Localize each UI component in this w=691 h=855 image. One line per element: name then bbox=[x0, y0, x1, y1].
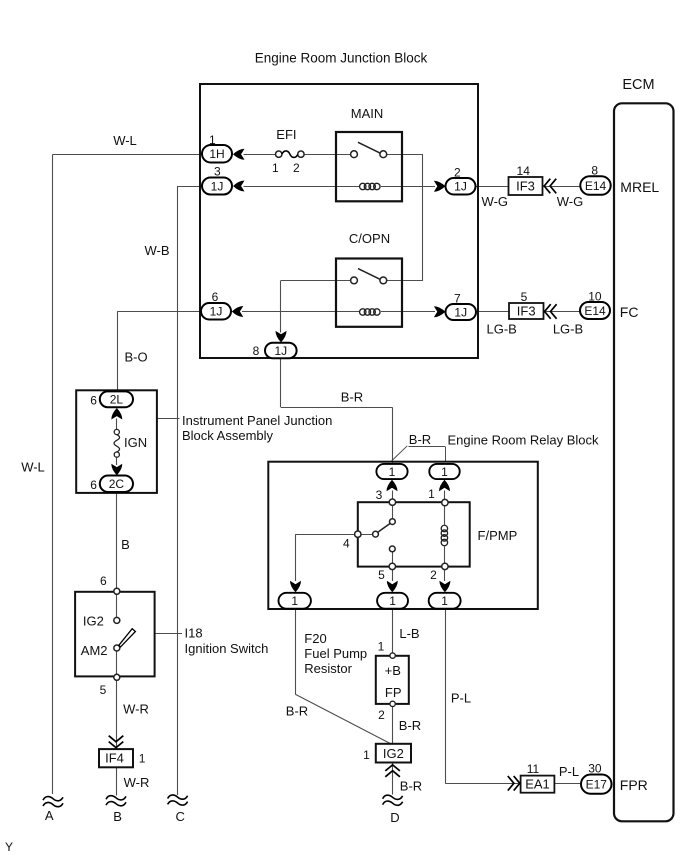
svg-text:Y: Y bbox=[5, 840, 13, 854]
svg-text:W-B: W-B bbox=[144, 243, 169, 258]
svg-text:W-G: W-G bbox=[557, 194, 583, 209]
svg-text:MREL: MREL bbox=[620, 179, 659, 195]
svg-text:W-L: W-L bbox=[21, 460, 45, 475]
svg-text:3: 3 bbox=[214, 165, 221, 179]
svg-text:B-R: B-R bbox=[400, 779, 422, 794]
svg-text:1H: 1H bbox=[209, 147, 224, 161]
svg-text:1: 1 bbox=[441, 465, 448, 479]
svg-text:ECM: ECM bbox=[622, 77, 654, 93]
svg-text:1: 1 bbox=[363, 748, 370, 762]
svg-text:8: 8 bbox=[591, 164, 598, 178]
svg-text:5: 5 bbox=[521, 290, 528, 304]
svg-text:IF4: IF4 bbox=[105, 751, 124, 766]
svg-text:4: 4 bbox=[343, 537, 350, 551]
svg-text:8: 8 bbox=[253, 344, 260, 358]
svg-text:2: 2 bbox=[293, 161, 300, 175]
svg-text:7: 7 bbox=[454, 292, 461, 306]
svg-text:Block Assembly: Block Assembly bbox=[182, 428, 274, 443]
svg-text:6: 6 bbox=[212, 290, 219, 304]
svg-text:Engine Room Relay Block: Engine Room Relay Block bbox=[448, 433, 600, 448]
svg-text:14: 14 bbox=[517, 164, 531, 178]
svg-text:30: 30 bbox=[588, 762, 602, 776]
svg-text:IF3: IF3 bbox=[516, 179, 535, 194]
svg-text:IGN: IGN bbox=[124, 435, 147, 450]
svg-text:6: 6 bbox=[90, 478, 97, 492]
svg-text:Resistor: Resistor bbox=[304, 661, 352, 676]
svg-text:D: D bbox=[390, 810, 399, 825]
svg-text:W-G: W-G bbox=[482, 194, 508, 209]
svg-text:2L: 2L bbox=[110, 393, 124, 407]
svg-text:EA1: EA1 bbox=[525, 777, 550, 792]
svg-text:1: 1 bbox=[272, 161, 279, 175]
svg-text:W-L: W-L bbox=[113, 133, 137, 148]
svg-text:IF3: IF3 bbox=[517, 304, 536, 319]
svg-text:C/OPN: C/OPN bbox=[349, 231, 390, 246]
svg-text:Fuel Pump: Fuel Pump bbox=[304, 646, 367, 661]
svg-text:1: 1 bbox=[378, 640, 385, 654]
svg-text:6: 6 bbox=[90, 394, 97, 408]
svg-text:IG2: IG2 bbox=[383, 746, 404, 761]
svg-text:2: 2 bbox=[430, 568, 437, 582]
svg-text:1: 1 bbox=[389, 465, 396, 479]
svg-text:1J: 1J bbox=[274, 344, 287, 358]
svg-text:A: A bbox=[45, 808, 54, 823]
svg-text:1: 1 bbox=[139, 752, 146, 766]
svg-text:+B: +B bbox=[385, 663, 401, 678]
svg-text:1J: 1J bbox=[211, 179, 224, 193]
svg-text:B-O: B-O bbox=[124, 350, 147, 365]
svg-text:FC: FC bbox=[620, 304, 639, 320]
svg-text:1: 1 bbox=[291, 594, 298, 608]
svg-text:11: 11 bbox=[527, 762, 540, 776]
svg-text:10: 10 bbox=[588, 290, 602, 304]
svg-text:1: 1 bbox=[428, 487, 435, 501]
svg-text:AM2: AM2 bbox=[81, 643, 108, 658]
svg-text:5: 5 bbox=[378, 568, 385, 582]
svg-text:W-R: W-R bbox=[124, 775, 150, 790]
svg-text:Engine Room Junction Block: Engine Room Junction Block bbox=[255, 51, 428, 66]
svg-text:P-L: P-L bbox=[559, 764, 579, 779]
svg-text:1: 1 bbox=[389, 594, 396, 608]
svg-text:FP: FP bbox=[385, 685, 402, 700]
svg-text:LG-B: LG-B bbox=[487, 322, 517, 337]
svg-text:P-L: P-L bbox=[451, 691, 471, 706]
svg-text:I18: I18 bbox=[185, 626, 203, 641]
svg-text:E14: E14 bbox=[584, 304, 606, 318]
svg-text:B: B bbox=[121, 537, 130, 552]
svg-text:3: 3 bbox=[376, 488, 383, 502]
svg-text:2: 2 bbox=[378, 708, 385, 722]
svg-text:2C: 2C bbox=[109, 477, 125, 491]
svg-text:1J: 1J bbox=[454, 305, 467, 319]
svg-text:F/PMP: F/PMP bbox=[478, 528, 518, 543]
svg-text:E14: E14 bbox=[585, 179, 607, 193]
svg-text:E17: E17 bbox=[586, 777, 608, 791]
svg-text:IG2: IG2 bbox=[83, 614, 104, 629]
svg-text:2: 2 bbox=[454, 166, 461, 180]
svg-text:5: 5 bbox=[100, 683, 107, 697]
svg-text:L-B: L-B bbox=[399, 626, 419, 641]
svg-text:B: B bbox=[113, 809, 122, 824]
svg-text:Ignition Switch: Ignition Switch bbox=[185, 641, 269, 656]
svg-text:1J: 1J bbox=[210, 305, 223, 319]
svg-text:EFI: EFI bbox=[276, 127, 296, 142]
svg-text:B-R: B-R bbox=[286, 704, 308, 719]
svg-text:C: C bbox=[176, 809, 185, 824]
svg-text:Instrument Panel Junction: Instrument Panel Junction bbox=[182, 413, 332, 428]
svg-text:W-R: W-R bbox=[123, 702, 149, 717]
svg-text:FPR: FPR bbox=[620, 777, 648, 793]
svg-text:1J: 1J bbox=[454, 180, 467, 194]
svg-text:B-R: B-R bbox=[409, 432, 431, 447]
svg-text:B-R: B-R bbox=[341, 390, 363, 405]
svg-text:LG-B: LG-B bbox=[553, 322, 583, 337]
svg-text:1: 1 bbox=[441, 594, 448, 608]
svg-text:6: 6 bbox=[100, 574, 107, 588]
svg-text:F20: F20 bbox=[304, 631, 326, 646]
svg-text:MAIN: MAIN bbox=[351, 106, 384, 121]
svg-text:1: 1 bbox=[209, 133, 216, 147]
svg-text:B-R: B-R bbox=[399, 718, 421, 733]
